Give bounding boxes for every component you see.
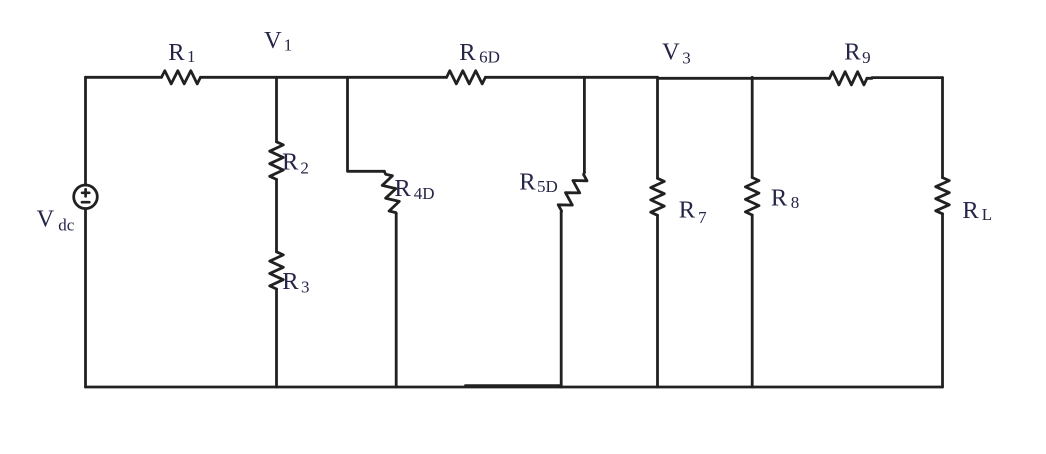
wire: R9 lead to joint [867,77,872,80]
wire: R3 down to bottom rail [275,289,278,387]
wire: top rail, node V3 to R9 (slightly offset joint) [658,77,830,80]
wire: top rail junction down to R8 [751,77,754,177]
svg-text:R8: R8 [771,184,799,212]
wire: top rail, Vdc to R1 [86,76,162,79]
voltage source minus terminal [82,201,89,204]
resistor RL [936,178,950,214]
svg-text:R1: R1 [168,39,195,66]
wire: left rail, Vdc source down to bottom-left corner [84,209,87,387]
svg-text:R9: R9 [844,39,870,68]
wire: top rail junction down then jog right to R4D [348,77,385,171]
wire: R8 down to bottom rail [751,215,754,387]
svg-text:V1: V1 [264,27,292,55]
wire: top rail, R9 to top-right corner [872,76,943,79]
wire: top rail junction down to R5D [583,77,586,172]
wire: bottom rail [86,386,943,389]
svg-text:Vdc: Vdc [37,205,75,234]
wire: RL down to bottom-right corner [941,214,944,387]
svg-text:R4D: R4D [394,175,434,203]
svg-text:R5D: R5D [519,168,558,196]
svg-text:RL: RL [962,197,992,224]
resistor R5D [558,172,587,212]
wire: top rail, R1 through node V1 to R6D [201,76,447,79]
svg-text:V3: V3 [662,39,691,68]
svg-text:R7: R7 [679,196,707,227]
resistor R8 [745,178,759,216]
wire: R2 to R3 [275,179,278,251]
wire: right rail, top-right corner down to RL [941,78,944,178]
wire: R4D down to bottom rail [395,213,398,387]
wire: node V3 down to R7 [656,77,659,178]
resistor R9 [830,72,868,85]
voltage source V_dc circle [74,185,98,209]
wire: left rail, top corner down to Vdc source [84,77,87,185]
resistor R3 [270,252,284,289]
wire: node V1 down to R2 [275,77,278,142]
wire: R5D down to bottom rail [560,212,563,387]
svg-text:R3: R3 [282,268,309,297]
svg-text:R6D: R6D [459,39,500,67]
resistor R6D [447,71,486,84]
wire: bottom rail overlap segment near R5D branch [465,384,561,386]
svg-text:R2: R2 [282,148,309,177]
wire: R7 down to bottom rail [656,215,659,387]
resistor R4D [382,171,399,213]
wire: top rail, R6D to node V3 [485,76,657,79]
resistor R2 [270,142,284,180]
voltage source plus terminal [82,189,89,196]
resistor R1 [162,71,201,84]
resistor R7 [651,178,665,215]
